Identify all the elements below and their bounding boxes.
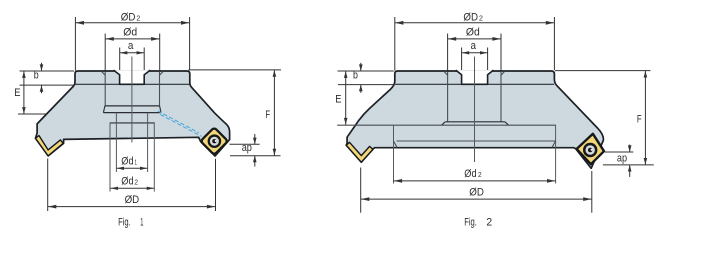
fig2 boss base tangent line [395, 83, 554, 85]
fig1 bore d1 wall + extension left [115, 113, 117, 172]
fig1 cutter body [36, 71, 230, 156]
fig2 rim wall left + Od2 extension [393, 125, 395, 183]
fig1 lead-angle dashed line upper [158, 111, 199, 133]
svg-text:Ød: Ød [121, 176, 133, 188]
fig1 lead-angle dashed line lower [160, 115, 201, 137]
svg-text:Ød: Ød [121, 155, 133, 167]
fig1 right insert (diamond) [200, 127, 227, 154]
fig2 rim chamfer ring [397, 140, 557, 142]
fig2 dim ap [603, 145, 654, 177]
svg-text:F: F [265, 109, 270, 121]
fig1 dim Od [105, 26, 160, 70]
fig1 bore chamfer left [102, 71, 106, 75]
fig1 bore d2 wall + extension right [153, 123, 155, 192]
fig2 bore bottom chamfer right [505, 122, 509, 125]
fig1 boss base tangent line [76, 83, 190, 85]
svg-text:ap: ap [617, 153, 627, 165]
fig1 bore d1 wall + extension right [147, 113, 149, 172]
svg-text:E: E [14, 87, 20, 99]
svg-text:ØD: ØD [469, 186, 484, 198]
fig2 dim a [462, 40, 488, 70]
fig2 cutter body [346, 71, 603, 168]
fig1 dim Od2 [110, 176, 154, 190]
fig1 dim a [120, 40, 145, 70]
svg-text:Ød: Ød [466, 26, 480, 38]
fig2 rim wall right + Od2 extension [555, 125, 557, 183]
fig2 rim corner chamfer left [394, 141, 398, 147]
svg-text:a: a [471, 40, 477, 52]
fig2 dim OD [361, 168, 592, 213]
svg-text:2: 2 [479, 13, 483, 22]
fig2 bore chamfer right [501, 71, 505, 75]
fig2 bore bottom chamfer left [442, 122, 446, 125]
fig1 flange step [103, 106, 161, 113]
fig2 dim F [555, 71, 651, 165]
fig2 slot (drive slot) [456, 70, 494, 84]
svg-text:E: E [335, 93, 341, 105]
svg-text:ØD: ØD [121, 11, 136, 23]
fig2 insert screw [583, 143, 597, 157]
fig2 center line [474, 57, 476, 163]
fig2 dim Od2 [394, 168, 556, 183]
svg-text:2: 2 [136, 13, 140, 22]
fig1 center line [131, 57, 133, 143]
fig2 step line (also E extension) [337, 124, 556, 126]
fig2 bore chamfer left [444, 71, 448, 75]
fig2 left insert (chevron) [346, 142, 373, 162]
fig2 bore wall right [500, 72, 502, 122]
fig2 dim OD2 [395, 11, 555, 70]
svg-text:2: 2 [486, 217, 492, 229]
fig1 dim Od1 [116, 155, 147, 170]
svg-text:ØD: ØD [125, 194, 140, 206]
svg-text:Fig.: Fig. [118, 217, 131, 229]
svg-text:b: b [353, 70, 358, 82]
svg-text:Ød: Ød [123, 26, 137, 38]
fig1 left insert (chevron) [35, 136, 63, 156]
svg-text:ap: ap [242, 142, 252, 154]
fig1 dim E [14, 71, 46, 114]
svg-text:Fig.: Fig. [464, 217, 477, 229]
fig2 dim E [335, 71, 347, 125]
svg-text:2: 2 [478, 170, 482, 179]
svg-text:2: 2 [134, 178, 138, 187]
fig1 bore wall left [104, 72, 106, 106]
fig1 insert screw [208, 134, 222, 148]
fig1 bore chamfer right [160, 71, 164, 75]
svg-text:b: b [34, 70, 39, 82]
fig1 slot (drive slot) [114, 70, 151, 84]
svg-text:Ød: Ød [464, 168, 476, 180]
svg-text:F: F [637, 113, 642, 125]
fig1 dim ap [230, 134, 281, 167]
fig1 dim OD2 [75, 11, 189, 70]
fig1 hub step bottom line [110, 122, 155, 124]
fig1 dim b [20, 63, 75, 94]
svg-text:a: a [128, 40, 134, 52]
fig1 dim F [189, 70, 282, 156]
fig2 bore bottom [445, 121, 505, 123]
fig2 dim b [338, 63, 394, 93]
svg-text:1: 1 [134, 157, 137, 166]
fig2 bore wall left [447, 72, 449, 122]
fig2 rim corner chamfer right [552, 141, 556, 147]
fig1 bore d2 wall + extension left [109, 123, 111, 192]
fig2 dim Od [448, 26, 501, 70]
fig1 dim OD [48, 159, 216, 212]
svg-text:1: 1 [140, 217, 143, 229]
fig2 right insert (diamond) [577, 134, 604, 164]
fig1 bore wall right [159, 72, 161, 106]
svg-text:ØD: ØD [463, 11, 478, 23]
